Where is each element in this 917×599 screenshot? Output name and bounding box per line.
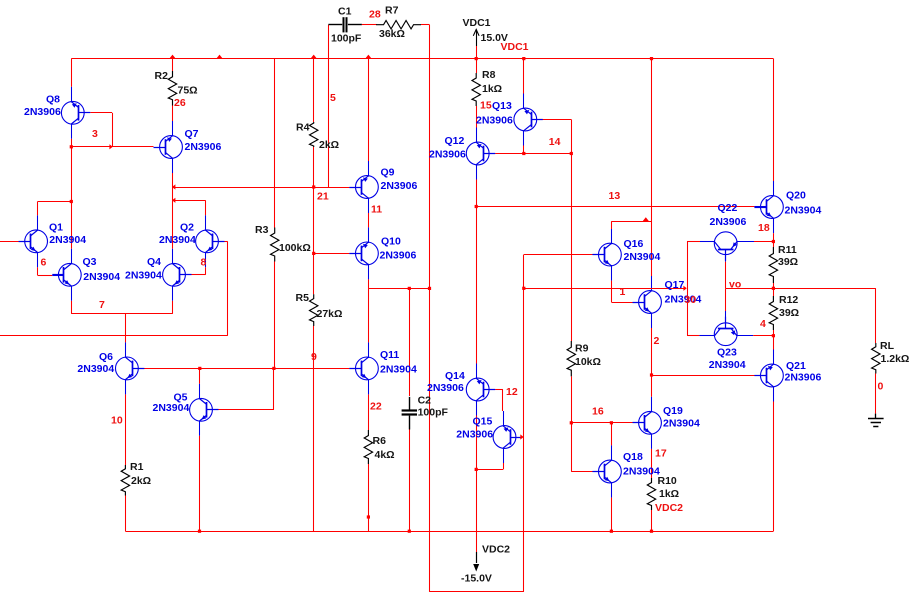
svg-text:Q9: Q9	[381, 167, 395, 179]
svg-text:VDC1: VDC1	[501, 41, 529, 53]
svg-text:Q1: Q1	[49, 222, 63, 234]
svg-text:2kΩ: 2kΩ	[319, 139, 339, 151]
svg-text:28: 28	[369, 9, 381, 21]
svg-text:2N3904: 2N3904	[49, 234, 86, 246]
svg-text:RL: RL	[880, 340, 895, 352]
svg-text:Q2: Q2	[180, 222, 194, 234]
svg-text:12: 12	[506, 386, 518, 398]
svg-text:7: 7	[99, 299, 105, 311]
svg-text:VDC2: VDC2	[655, 502, 683, 514]
svg-text:R6: R6	[373, 435, 387, 447]
svg-text:15: 15	[480, 100, 492, 112]
svg-text:2N3906: 2N3906	[185, 141, 222, 153]
svg-text:5: 5	[330, 92, 336, 104]
svg-text:2N3904: 2N3904	[125, 270, 162, 282]
svg-text:Q15: Q15	[473, 415, 493, 427]
svg-text:Q3: Q3	[83, 256, 97, 268]
svg-text:R12: R12	[779, 294, 798, 306]
svg-text:4kΩ: 4kΩ	[375, 449, 395, 461]
svg-text:2: 2	[654, 335, 660, 347]
svg-text:2N3904: 2N3904	[624, 251, 661, 263]
svg-text:4: 4	[760, 318, 766, 330]
svg-text:R10: R10	[658, 475, 677, 487]
svg-text:2N3904: 2N3904	[785, 204, 822, 216]
svg-text:0: 0	[878, 380, 884, 392]
svg-text:R11: R11	[778, 244, 797, 256]
svg-text:vo: vo	[729, 279, 741, 291]
svg-text:1.2kΩ: 1.2kΩ	[881, 353, 910, 365]
svg-text:2N3906: 2N3906	[456, 429, 493, 441]
svg-text:9: 9	[311, 351, 317, 363]
svg-text:Q18: Q18	[623, 451, 643, 463]
svg-text:27kΩ: 27kΩ	[317, 308, 343, 320]
svg-text:Q10: Q10	[381, 236, 401, 248]
svg-text:13: 13	[609, 190, 621, 202]
svg-text:2N3906: 2N3906	[429, 149, 466, 161]
svg-text:C2: C2	[418, 395, 432, 407]
svg-text:10: 10	[111, 415, 123, 427]
svg-text:2N3904: 2N3904	[709, 359, 746, 371]
svg-text:Q23: Q23	[717, 347, 737, 359]
svg-text:C1: C1	[338, 6, 352, 18]
svg-text:21: 21	[317, 191, 329, 203]
svg-text:VDC2: VDC2	[482, 544, 510, 556]
svg-text:Q13: Q13	[492, 100, 512, 112]
svg-text:2N3904: 2N3904	[77, 363, 114, 375]
svg-text:2N3904: 2N3904	[623, 466, 660, 478]
svg-text:Q14: Q14	[445, 370, 465, 382]
svg-text:2N3904: 2N3904	[83, 271, 120, 283]
svg-text:R4: R4	[296, 122, 310, 134]
svg-text:2N3906: 2N3906	[427, 382, 464, 394]
svg-text:22: 22	[370, 400, 382, 412]
svg-text:Q20: Q20	[786, 190, 806, 202]
svg-text:17: 17	[655, 448, 667, 460]
svg-text:2N3904: 2N3904	[663, 418, 700, 430]
svg-text:100kΩ: 100kΩ	[279, 242, 311, 254]
svg-text:16: 16	[592, 405, 604, 417]
svg-text:1kΩ: 1kΩ	[482, 83, 502, 95]
svg-text:VDC1: VDC1	[463, 17, 491, 29]
svg-text:R9: R9	[575, 343, 589, 355]
svg-text:10kΩ: 10kΩ	[575, 356, 601, 368]
svg-text:11: 11	[371, 204, 382, 216]
svg-text:R8: R8	[482, 69, 496, 81]
svg-text:R5: R5	[296, 292, 310, 304]
svg-text:2kΩ: 2kΩ	[131, 475, 151, 487]
svg-text:2N3906: 2N3906	[24, 106, 61, 118]
svg-text:2N3906: 2N3906	[785, 372, 822, 384]
svg-text:26: 26	[174, 97, 186, 109]
svg-text:2N3906: 2N3906	[380, 250, 417, 262]
svg-text:R1: R1	[130, 461, 144, 473]
svg-text:-15.0V: -15.0V	[461, 573, 492, 585]
svg-text:36kΩ: 36kΩ	[379, 28, 405, 40]
svg-text:Q7: Q7	[185, 128, 199, 140]
svg-text:2N3906: 2N3906	[476, 114, 513, 126]
svg-text:Q19: Q19	[663, 405, 683, 417]
svg-text:Q12: Q12	[445, 135, 465, 147]
svg-text:Q6: Q6	[99, 351, 113, 363]
svg-text:2N3906: 2N3906	[710, 216, 747, 228]
svg-text:Q21: Q21	[786, 360, 806, 372]
svg-text:2N3904: 2N3904	[380, 364, 417, 376]
svg-text:1kΩ: 1kΩ	[659, 488, 679, 500]
svg-text:100pF: 100pF	[418, 407, 449, 419]
svg-text:1: 1	[620, 286, 626, 298]
svg-text:14: 14	[549, 136, 561, 148]
svg-text:39Ω: 39Ω	[779, 307, 799, 319]
svg-text:3: 3	[92, 128, 98, 140]
svg-text:30: 30	[685, 294, 697, 306]
svg-text:75Ω: 75Ω	[178, 85, 198, 97]
svg-text:6: 6	[41, 257, 47, 269]
svg-text:Q16: Q16	[624, 238, 644, 250]
svg-text:2N3904: 2N3904	[159, 234, 196, 246]
svg-text:Q8: Q8	[46, 94, 60, 106]
svg-text:R3: R3	[255, 224, 269, 236]
svg-text:100pF: 100pF	[331, 33, 362, 45]
svg-text:Q17: Q17	[665, 279, 685, 291]
svg-text:39Ω: 39Ω	[778, 256, 798, 268]
svg-text:Q22: Q22	[718, 202, 738, 214]
svg-text:8: 8	[201, 257, 207, 269]
svg-text:Q11: Q11	[380, 349, 399, 361]
svg-text:R2: R2	[155, 70, 169, 82]
svg-text:Q4: Q4	[147, 256, 161, 268]
svg-text:R7: R7	[385, 5, 399, 17]
svg-text:18: 18	[758, 222, 770, 234]
svg-text:2N3904: 2N3904	[153, 402, 190, 414]
svg-text:2N3906: 2N3906	[381, 180, 418, 192]
